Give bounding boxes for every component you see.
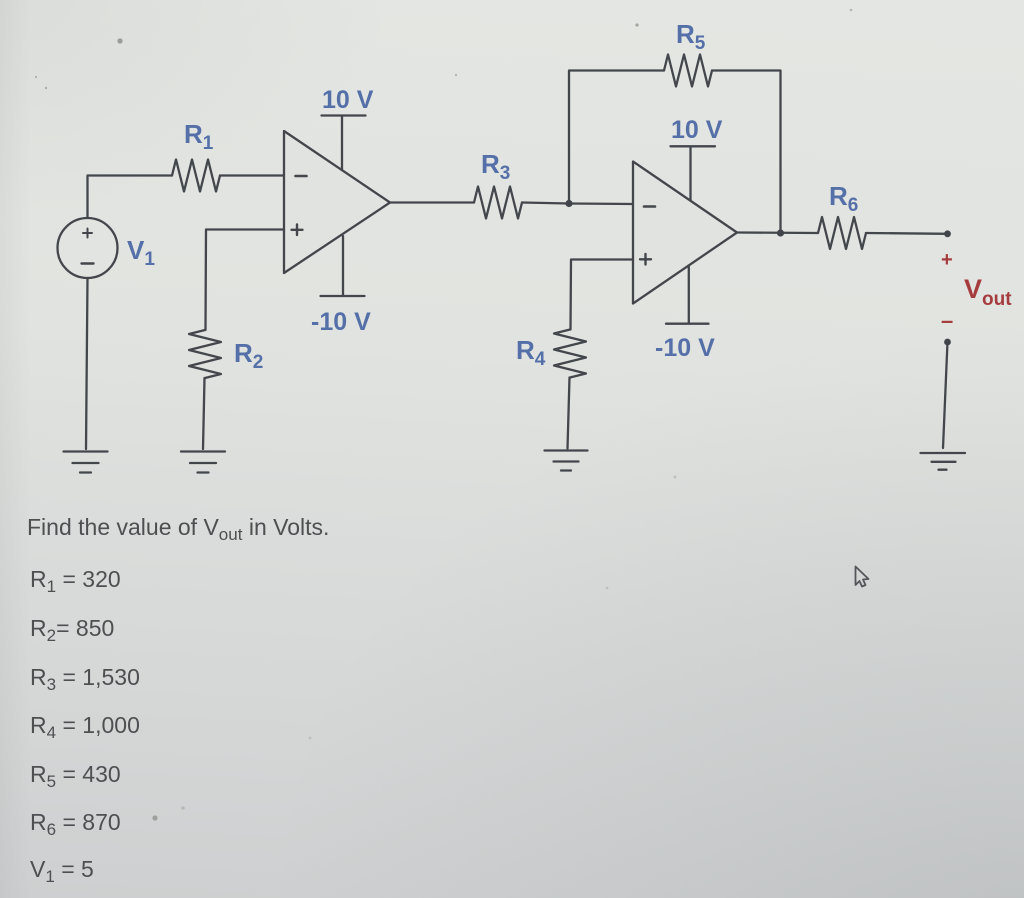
wire R2 to ground bbox=[203, 378, 205, 449]
svg-text:R3 = 1,530: R3 = 1,530 bbox=[30, 664, 140, 694]
svg-text:R1 = 320: R1 = 320 bbox=[30, 566, 121, 596]
wire node A to U2 inverting input bbox=[569, 202, 633, 205]
svg-text:V1: V1 bbox=[127, 235, 155, 270]
wire Vout lower terminal to ground bbox=[943, 342, 948, 448]
Vout lower terminal dot bbox=[944, 339, 951, 346]
svg-text:R2= 850: R2= 850 bbox=[30, 615, 114, 645]
svg-text:R5 = 430: R5 = 430 bbox=[30, 761, 121, 791]
mouse cursor bbox=[856, 567, 869, 587]
svg-text:-10 V: -10 V bbox=[655, 334, 715, 362]
dust speck 7 bbox=[152, 815, 157, 820]
svg-text:–: – bbox=[941, 308, 953, 333]
dust speck 6 bbox=[850, 9, 853, 12]
wire R3 to node A bbox=[522, 203, 569, 204]
U2 plus input mark bbox=[640, 254, 651, 265]
ground (Vout) bbox=[921, 453, 966, 470]
U2 minus input mark bbox=[644, 205, 655, 208]
dust speck 10 bbox=[606, 587, 609, 590]
wire U2 output to R6 bbox=[737, 231, 818, 234]
dust speck 2 bbox=[35, 76, 37, 78]
node A junction dot bbox=[565, 200, 572, 207]
op-amp U2 bbox=[633, 162, 737, 304]
svg-text:R2: R2 bbox=[234, 338, 263, 373]
svg-text:R6 = 870: R6 = 870 bbox=[30, 809, 121, 839]
svg-text:-10 V: -10 V bbox=[311, 308, 371, 336]
wire U1 output to R3 bbox=[390, 201, 474, 203]
dust speck 9 bbox=[309, 737, 312, 740]
svg-text:R4 = 1,000: R4 = 1,000 bbox=[30, 712, 140, 742]
dust speck 8 bbox=[181, 806, 185, 810]
ground (R4) bbox=[545, 451, 588, 471]
resistor R5 bbox=[664, 55, 712, 87]
wire V1 bottom to ground bbox=[86, 278, 88, 449]
dust speck 11 bbox=[674, 476, 677, 479]
resistor R2 bbox=[189, 330, 221, 378]
U1 plus input mark bbox=[292, 225, 303, 236]
U1 minus input mark bbox=[296, 175, 307, 178]
dust speck 4 bbox=[635, 23, 638, 26]
svg-text:Vout: Vout bbox=[964, 274, 1012, 310]
svg-text:V1 = 5: V1 = 5 bbox=[30, 856, 94, 886]
svg-text:Find the value of Vout in Volt: Find the value of Vout in Volts. bbox=[27, 514, 329, 544]
resistor R4 bbox=[554, 330, 586, 378]
wire node A up to feedback bbox=[569, 71, 664, 204]
svg-text:R6: R6 bbox=[829, 181, 858, 216]
ground (R2) bbox=[181, 452, 225, 473]
U2 +10V supply rail bbox=[671, 146, 716, 200]
node B junction dot bbox=[777, 229, 784, 236]
U2 -10V supply rail bbox=[666, 266, 709, 324]
dust speck 3 bbox=[45, 87, 47, 89]
svg-text:10 V: 10 V bbox=[322, 86, 374, 114]
svg-text:R3: R3 bbox=[481, 149, 510, 184]
wire U1 plus input to R2 bbox=[206, 230, 285, 331]
svg-text:R1: R1 bbox=[184, 119, 214, 154]
wire R4 to ground bbox=[568, 378, 570, 449]
svg-text:10 V: 10 V bbox=[671, 116, 723, 144]
resistor R6 bbox=[818, 217, 866, 249]
voltage source V1 bbox=[58, 218, 118, 278]
wire U2 plus input to R4 bbox=[571, 260, 634, 330]
resistor R3 bbox=[474, 187, 522, 219]
resistor R1 bbox=[172, 160, 220, 192]
svg-text:R4: R4 bbox=[516, 335, 546, 370]
U1 -10V supply rail bbox=[321, 236, 365, 296]
wire R6 to output terminal bbox=[866, 232, 948, 235]
wire V1 top to R1 bbox=[88, 176, 173, 218]
wire R1 to op-amp U1 inverting input bbox=[220, 174, 284, 176]
svg-text:R5: R5 bbox=[676, 19, 706, 54]
Vout upper terminal dot bbox=[944, 230, 951, 237]
dust speck 5 bbox=[455, 74, 457, 76]
ground (V1) bbox=[64, 452, 108, 473]
wire R5 to output node B bbox=[712, 71, 781, 234]
U1 +10V supply rail bbox=[322, 116, 366, 171]
V1 plus mark bbox=[83, 229, 92, 238]
V1 minus mark bbox=[82, 262, 94, 264]
svg-text:+: + bbox=[941, 249, 953, 271]
op-amp U1 bbox=[284, 131, 390, 273]
dust speck 1 bbox=[117, 38, 122, 43]
